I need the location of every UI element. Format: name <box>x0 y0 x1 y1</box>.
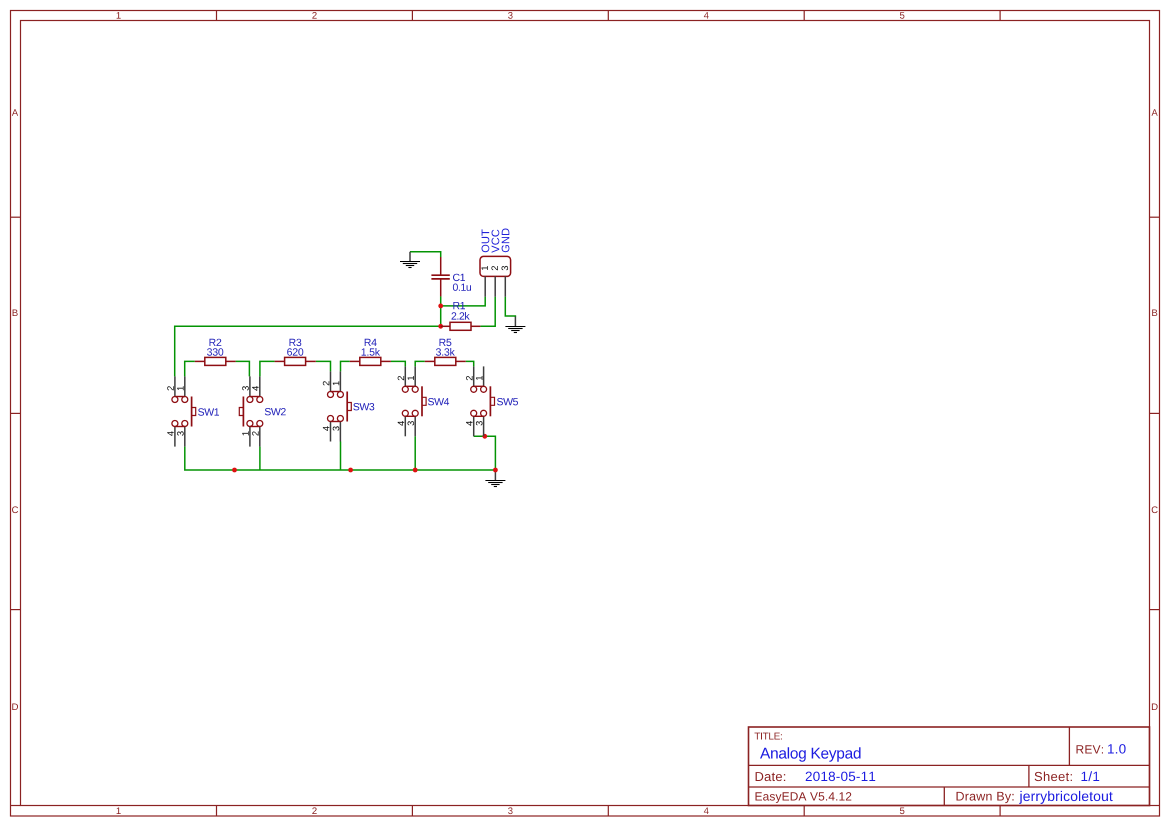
label R4 <box>365 339 377 346</box>
switch SW3 pin number 1 <box>333 381 339 385</box>
wire main bus to SW1 pin 2 <box>175 326 441 376</box>
label SW4 <box>428 398 449 405</box>
title block label REV: <box>1077 745 1104 753</box>
frame row tick right 3 <box>1150 609 1160 611</box>
wire SW2 pin2 to bottom bus <box>259 447 261 470</box>
ground symbol top-left (C1 net) <box>400 252 420 268</box>
switch SW2 pin number 2 <box>252 431 259 435</box>
junction bottom bus SW4 <box>413 468 418 473</box>
pin name VCC <box>492 230 500 253</box>
switch SW2 <box>239 376 263 446</box>
switch SW1 pin number 4 <box>167 431 173 436</box>
switch SW4 pin number 3 <box>408 421 415 425</box>
connector pin number 3 <box>502 266 509 270</box>
connector pin 2 line <box>494 276 496 296</box>
wire R1 right to connector pin 2 <box>480 297 495 327</box>
label C1 <box>453 274 465 281</box>
label SW5 <box>497 398 518 405</box>
junction bottom bus ground <box>493 468 498 473</box>
switch SW5 pin number 2 <box>466 376 473 380</box>
frame row tick left 2 <box>11 412 21 414</box>
label R4 value 1.5k <box>362 348 380 356</box>
frame column label 5 bottom <box>900 808 905 815</box>
connector pin 1 line <box>484 276 486 296</box>
label SW2 <box>265 408 286 415</box>
frame column tick bottom 5 <box>999 806 1001 816</box>
switch SW5 <box>471 366 495 436</box>
frame column label 4 top <box>704 12 709 19</box>
title block row divider 2 <box>749 786 1150 788</box>
title sheet value 1/1 <box>1082 771 1100 781</box>
frame row label C right <box>1152 506 1158 513</box>
frame row tick left 1 <box>11 216 21 218</box>
frame column tick top 1 <box>216 11 218 21</box>
frame row label B left <box>13 310 18 317</box>
junction bottom bus 1 <box>232 468 237 473</box>
junction bottom bus 2 <box>348 468 353 473</box>
frame column label 1 bottom <box>117 808 121 815</box>
switch SW1 pin number 3 <box>177 431 184 435</box>
switch SW1 <box>172 376 196 446</box>
title block label Sheet: <box>1035 772 1072 782</box>
frame row label D right <box>1152 704 1158 711</box>
title block row divider 1 <box>749 764 1150 766</box>
switch SW5 pin number 4 <box>466 421 472 426</box>
switch SW2 pin number 4 <box>252 386 258 391</box>
switch SW2 pin number 3 <box>242 386 249 390</box>
junction node C1/OUT <box>438 304 443 309</box>
title text Analog Keypad <box>760 747 861 761</box>
switch SW5 pin number 3 <box>476 421 483 425</box>
connector pin number 2 <box>491 266 498 270</box>
switch SW3 pin number 2 <box>323 381 330 385</box>
title rev value 1.0 <box>1108 744 1126 754</box>
frame column label 3 bottom <box>508 807 512 814</box>
frame left band bottom tick <box>11 805 21 807</box>
label R5 <box>440 339 452 346</box>
wire SW3 pin1 to R4 left <box>341 361 350 371</box>
connector pin 3 line <box>504 276 506 296</box>
label SW3 <box>353 403 374 410</box>
label SW1 <box>198 408 219 415</box>
junction SW5 bottom pins <box>482 434 487 439</box>
wire R4 right to SW4 pin2 <box>391 361 405 366</box>
frame row label B right <box>1152 310 1157 317</box>
label R1 value 2.2k <box>452 312 470 320</box>
label R5 value 3.3k <box>436 348 455 356</box>
frame column tick top 3 <box>607 11 609 21</box>
wire R3 right to SW3 pin2 <box>316 361 331 371</box>
title block label EasyEDA version <box>756 792 852 803</box>
frame column tick bottom 1 <box>216 806 218 816</box>
junction node C1/R1 bus <box>438 324 443 329</box>
title block label Drawn By: <box>957 792 1014 803</box>
connector P1 body <box>480 256 511 276</box>
label R3 value 620 <box>287 348 303 355</box>
frame row label D left <box>12 704 18 711</box>
switch SW1 pin number 2 <box>167 386 174 390</box>
resistor R1 <box>441 322 481 330</box>
title block REV cell divider <box>1068 727 1070 765</box>
title block Sheet cell divider <box>1028 765 1030 787</box>
label R1 <box>453 302 465 309</box>
title date value <box>806 772 876 782</box>
wire SW5 pins to bottom bus <box>474 436 496 470</box>
frame right band bottom tick <box>1150 805 1160 807</box>
switch SW3 <box>328 371 352 441</box>
switch SW1 pin number 1 <box>177 386 183 390</box>
resistor R2 <box>195 357 236 365</box>
wire SW1 pin1 to R2 left <box>185 361 195 376</box>
wire SW4 pin1 to R5 left <box>415 361 425 366</box>
title drawn-by value <box>1019 791 1112 804</box>
wire SW4 pin3 to bottom bus <box>414 436 416 470</box>
wire junction to connector pin 1 <box>441 297 486 306</box>
frame column label 2 bottom <box>312 807 316 814</box>
frame column tick bottom 3 <box>607 806 609 816</box>
frame column label 2 top <box>312 12 316 19</box>
title block label Date: <box>756 772 786 781</box>
frame column label 1 top <box>117 12 121 19</box>
frame row tick right 2 <box>1150 412 1160 414</box>
wire gnd to C1 top <box>410 252 441 257</box>
switch SW3 pin number 3 <box>333 426 340 430</box>
wire bottom bus <box>185 447 496 470</box>
switch SW4 pin number 1 <box>408 376 414 380</box>
label R2 value 330 <box>207 348 223 355</box>
ground symbol below connector pin 3 <box>505 317 525 333</box>
frame column tick bottom 2 <box>411 806 413 816</box>
wire R5 right to SW5 pin2 <box>466 361 474 366</box>
label C1 value 0.1u <box>453 284 471 291</box>
pin name GND <box>502 229 510 253</box>
label R3 <box>290 339 302 346</box>
connector pin number 1 <box>482 266 488 270</box>
frame column label 3 top <box>508 12 512 19</box>
frame column tick bottom 4 <box>803 806 805 816</box>
capacitor C1 <box>431 257 449 296</box>
wire SW2 pin4 to R3 left <box>260 361 275 376</box>
resistor R5 <box>425 357 466 365</box>
switch SW3 pin number 4 <box>323 426 329 431</box>
wire SW3 pin3 to bottom bus <box>340 442 342 471</box>
ground symbol bottom-right (bus) <box>485 470 505 487</box>
frame row tick right 1 <box>1150 216 1160 218</box>
switch SW4 pin number 4 <box>398 421 404 426</box>
switch SW4 pin number 2 <box>398 376 405 380</box>
switch SW2 pin number 1 <box>242 431 248 435</box>
label R2 <box>210 339 222 346</box>
frame row tick left 3 <box>11 609 21 611</box>
frame column tick top 4 <box>803 11 805 21</box>
title block outline <box>749 727 1150 806</box>
switch SW5 pin number 1 <box>476 376 482 380</box>
resistor R4 <box>350 357 391 365</box>
frame column tick top 5 <box>999 11 1001 21</box>
switch SW4 <box>402 366 426 436</box>
frame column tick top 2 <box>411 11 413 21</box>
frame column label 5 top <box>900 12 905 19</box>
wire C1 bottom to bus <box>440 296 442 326</box>
frame column label 4 bottom <box>704 808 709 815</box>
resistor R3 <box>275 357 316 365</box>
title block label TITLE: <box>755 733 782 740</box>
frame row label A right <box>1152 109 1158 116</box>
pin name OUT <box>482 229 490 252</box>
frame row label A left <box>12 109 18 116</box>
wire R2 right to SW2 pin3 <box>236 361 250 376</box>
wire connector pin 3 to ground <box>505 297 515 317</box>
frame row label C left <box>12 506 18 513</box>
title block DrawnBy cell divider <box>943 787 945 806</box>
